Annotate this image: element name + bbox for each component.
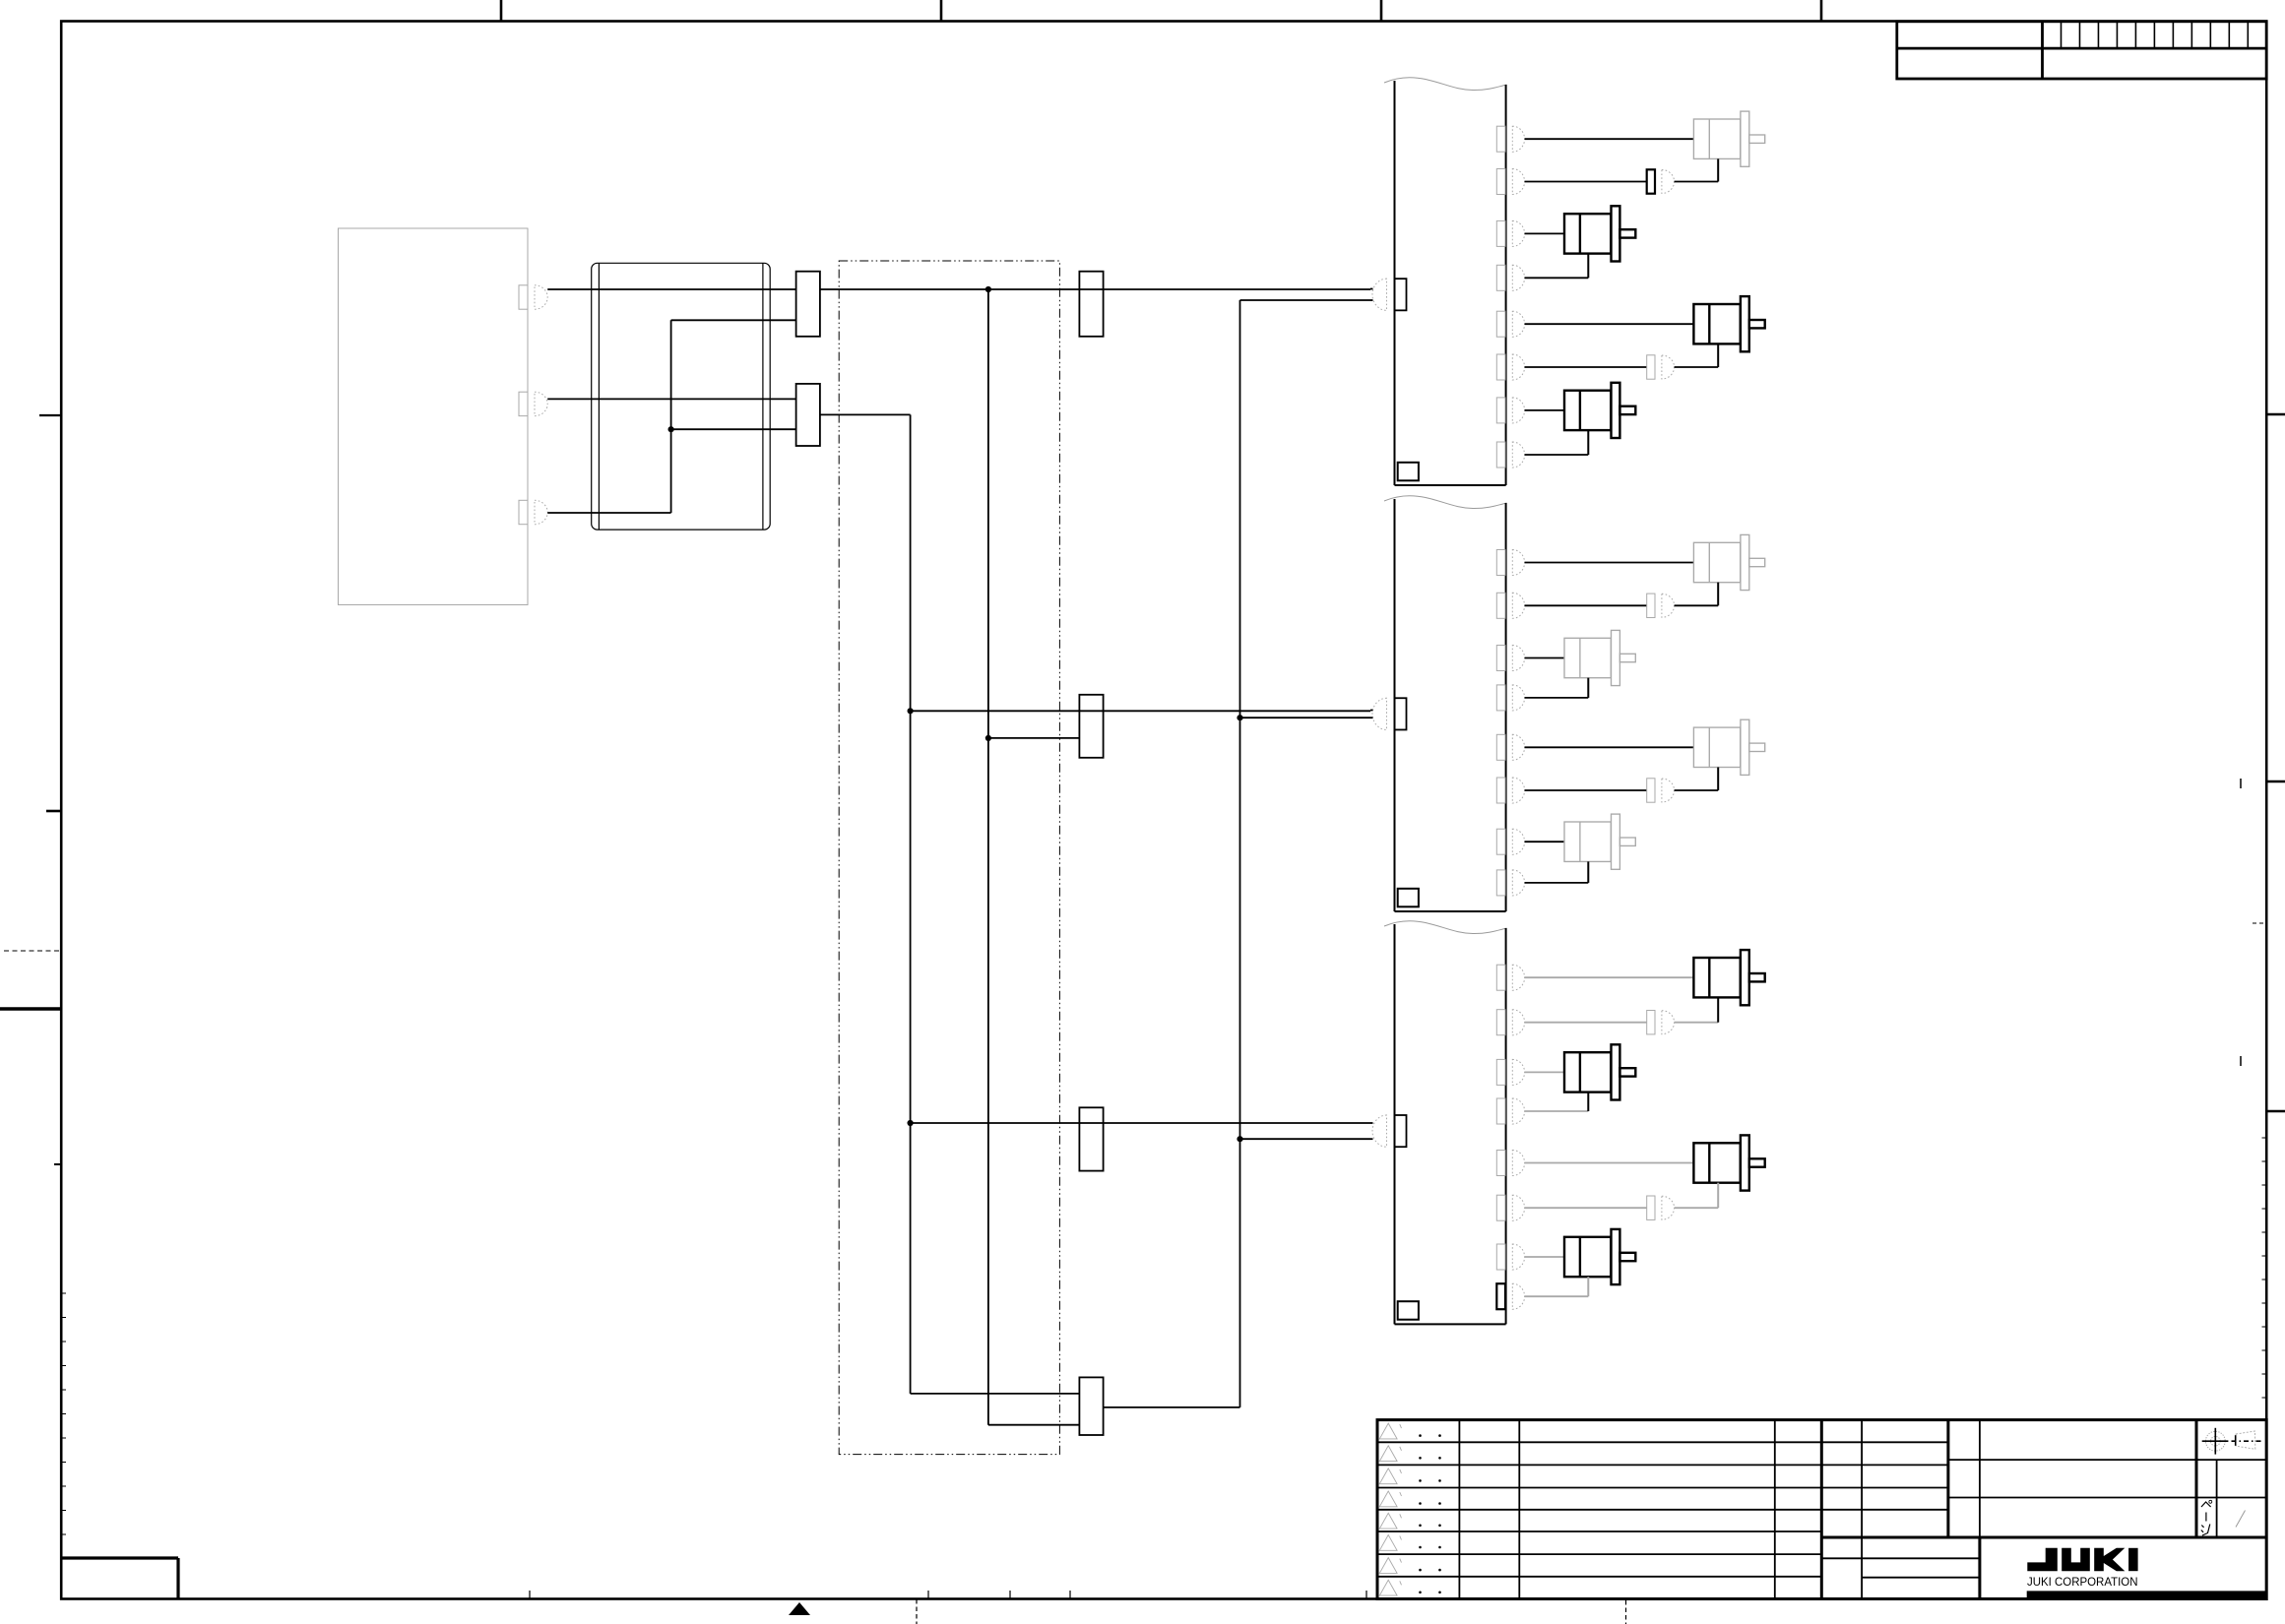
wire [1104,1406,1240,1408]
wire [1525,789,1647,791]
wire [1525,976,1694,978]
wire [1675,181,1719,183]
motor M8 [1564,822,1611,861]
wire [547,398,795,400]
wire [1525,1256,1564,1258]
connector U1-CN5 [1496,311,1505,337]
wire [1525,562,1694,564]
motor M3 [1693,304,1740,344]
connector U2-CN1 [1496,550,1505,576]
wire [1587,1277,1589,1296]
wire [1587,678,1589,698]
motor M5 [1693,542,1740,582]
connector U3-CN8 [1496,1283,1505,1309]
wire [1525,409,1564,411]
wire [1587,430,1589,455]
wire [820,288,1370,290]
connector U2-CN5 [1496,734,1505,760]
junction [985,286,991,292]
connector CN1 [519,285,528,309]
connector U1-J2 [1647,355,1655,379]
motor M9 [1693,958,1740,997]
wire [1370,299,1373,301]
wire [1525,1110,1589,1112]
connector U3-CN5 [1496,1151,1505,1176]
connector U3-CN1 [1496,965,1505,990]
connector U1-CN2 [1496,169,1505,195]
wire [1525,454,1589,456]
connector CN5 [796,384,820,446]
wire [1525,1022,1647,1024]
connector U2-CN6 [1496,778,1505,803]
noise filter NF1 [592,263,771,530]
connector U1-CN1 [1496,126,1505,152]
motor M4 [1564,391,1611,430]
motor M7 [1693,727,1740,767]
wire [1239,300,1241,1407]
wire [1370,1122,1373,1124]
connector U3-J1 [1647,1011,1655,1034]
connector CN8 [1079,1107,1103,1170]
wire [1525,181,1647,183]
connector U2-CN0 [1395,698,1407,729]
wire [1717,344,1719,367]
wire [987,289,989,1425]
wire [1675,366,1719,368]
connector CN4 [796,272,820,337]
wire [1525,697,1589,699]
connector U3-CN4 [1496,1098,1505,1124]
junction [908,1120,914,1126]
wire [1717,768,1719,791]
wire [1717,583,1719,606]
connector CN7 [1079,695,1103,758]
junction [1237,1136,1242,1142]
wire [1717,158,1719,181]
wire [1525,746,1694,748]
wire [1525,366,1647,368]
connector U2-CN8 [1496,870,1505,896]
connector U2-CN3 [1496,646,1505,671]
connector U2-J2 [1647,779,1655,802]
wire [1525,657,1564,659]
driver board U1 [1384,78,1507,91]
junction [1237,715,1242,720]
wire [1370,288,1373,290]
connector CN9 [1079,1377,1103,1435]
driver board U2 [1384,496,1507,509]
junction [985,735,991,741]
wire [988,737,1080,739]
wire [911,1122,1370,1124]
wire [1240,1138,1371,1140]
wire [1587,254,1589,279]
wire [1675,1022,1719,1024]
connector U3-CN7 [1496,1244,1505,1270]
connector U1-CN4 [1496,265,1505,290]
wire [1525,604,1647,606]
wire [820,413,911,415]
motor M12 [1564,1237,1611,1277]
connector U1-CN0 [1395,279,1407,310]
wire [1525,882,1589,884]
wire [1675,604,1719,606]
wire [1525,138,1694,140]
connector U1-J1 [1647,169,1655,193]
connector U3-J2 [1647,1196,1655,1219]
wire [1525,323,1694,325]
wire [1240,299,1371,301]
junction [908,708,914,714]
wire [1525,1071,1564,1073]
connector U3-CN0 [1395,1115,1407,1147]
wire [1525,1162,1694,1164]
motor M1 [1693,119,1740,158]
wire [1370,717,1373,718]
connector U1-CN3 [1496,220,1505,246]
wire [911,1393,1080,1395]
connector CN6 [1079,272,1103,337]
wire [1525,277,1589,279]
wire [1717,1183,1719,1209]
junction [668,426,674,432]
motor M10 [1564,1052,1611,1092]
wire [670,320,672,513]
control box CTRL [339,228,529,605]
connector U2-CN2 [1496,593,1505,618]
connector CN3 [519,500,528,524]
wire [1525,1207,1647,1209]
wire [1587,1093,1589,1111]
wire [1587,861,1589,883]
shield box [839,261,1059,1455]
wire [1525,232,1564,234]
motor M2 [1564,214,1611,253]
svg-text:JUKI CORPORATION: JUKI CORPORATION [2027,1575,2138,1589]
wire [1240,717,1371,718]
wire [988,1424,1080,1426]
wire [547,512,670,514]
connector U2-CN4 [1496,685,1505,711]
connector U3-CN6 [1496,1195,1505,1220]
wire [671,319,796,321]
wire [1525,841,1564,843]
connector U1-CN8 [1496,442,1505,468]
wire [1675,1207,1719,1209]
connector U3-CN2 [1496,1010,1505,1035]
motor M11 [1693,1143,1740,1182]
connector U1-CN6 [1496,354,1505,380]
driver board U3 [1384,921,1507,934]
wire [1675,789,1719,791]
connector U3-CN3 [1496,1059,1505,1085]
wire [547,288,795,290]
connector U2-CN7 [1496,829,1505,854]
connector U2-J1 [1647,593,1655,617]
wire [671,428,796,430]
wire [1717,997,1719,1022]
connector U1-CN7 [1496,398,1505,423]
wire [1370,710,1373,712]
wire [910,414,912,1394]
motor M6 [1564,638,1611,677]
wire [1370,1138,1373,1140]
connector CN2 [519,392,528,415]
wire [1525,1295,1589,1297]
wire [911,710,1370,712]
